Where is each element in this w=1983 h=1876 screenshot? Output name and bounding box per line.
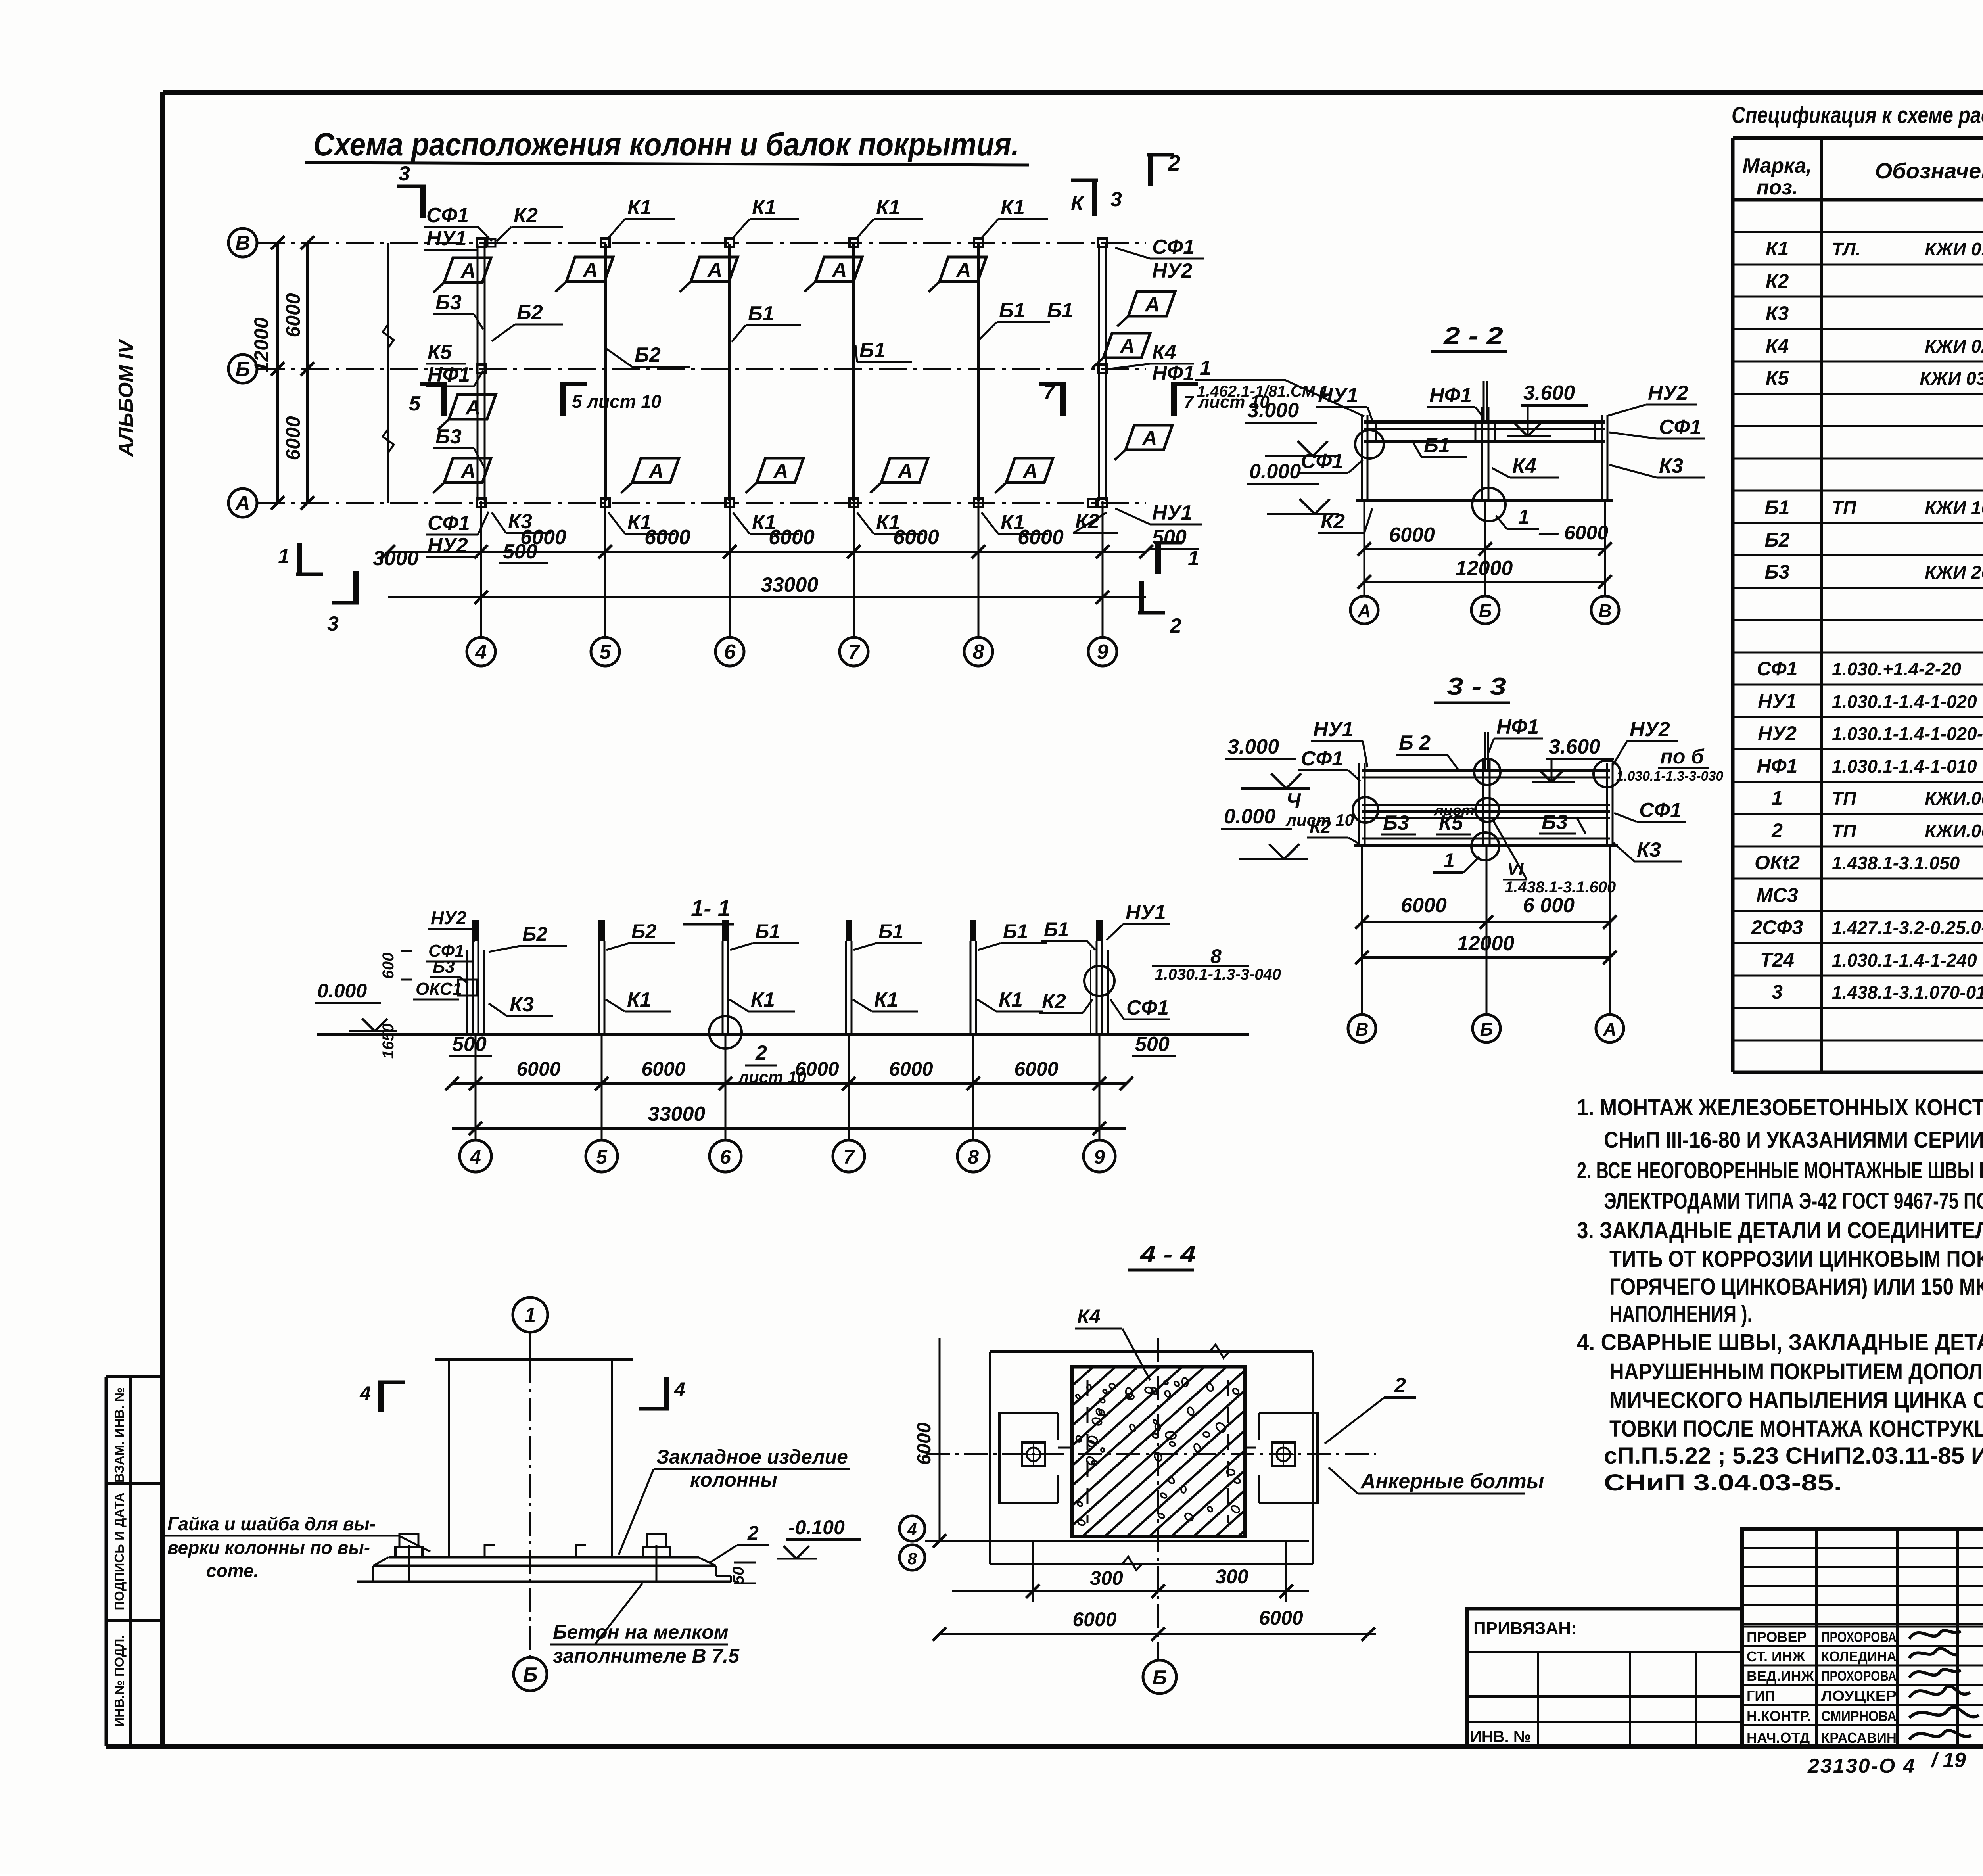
svg-text:КЖИ 02.00.00.00: КЖИ 02.00.00.00 [1925, 336, 1983, 357]
svg-text:300: 300 [1090, 1567, 1123, 1589]
svg-text:4: 4 [470, 1146, 481, 1168]
svg-text:6000: 6000 [1389, 524, 1435, 547]
svg-text:КЖИ 01.00.00.00: КЖИ 01.00.00.00 [1925, 239, 1983, 259]
svg-text:КЖИ 20.00.00.00: КЖИ 20.00.00.00 [1925, 562, 1983, 583]
svg-text:6000: 6000 [795, 1058, 839, 1080]
svg-text:К1: К1 [999, 988, 1023, 1011]
svg-text:Б: Б [236, 358, 250, 381]
svg-text:КЖИ 03.00.00.00.: КЖИ 03.00.00.00. [1920, 368, 1983, 389]
svg-text:Б1: Б1 [1047, 299, 1073, 322]
svg-text:6000: 6000 [282, 293, 304, 337]
svg-text:НУ1: НУ1 [1313, 718, 1354, 741]
svg-text:Б1: Б1 [1003, 920, 1028, 942]
svg-text:5: 5 [600, 641, 612, 664]
svg-text:Бетон на мелком: Бетон на мелком [553, 1621, 729, 1643]
svg-text:К2: К2 [1321, 510, 1345, 533]
svg-text:Б1: Б1 [999, 299, 1025, 322]
svg-text:ТЛ.: ТЛ. [1832, 239, 1860, 259]
svg-text:7: 7 [1043, 380, 1056, 403]
svg-text:К3: К3 [1766, 302, 1789, 324]
svg-text:3.000: 3.000 [1227, 735, 1279, 758]
svg-text:1: 1 [1200, 357, 1211, 380]
svg-text:НФ1: НФ1 [1429, 384, 1472, 407]
svg-text:К1: К1 [874, 988, 898, 1011]
svg-text:5: 5 [409, 392, 421, 415]
svg-text:НУ1: НУ1 [1126, 901, 1166, 924]
svg-text:Б3: Б3 [1542, 811, 1568, 834]
svg-text:6000: 6000 [893, 526, 939, 549]
svg-text:1.030.1-1.4-1-010: 1.030.1-1.4-1-010 [1832, 756, 1977, 777]
svg-text:СФ1: СФ1 [428, 512, 470, 535]
svg-text:КРАСАВИН: КРАСАВИН [1821, 1730, 1897, 1746]
svg-text:Б1: Б1 [1044, 918, 1069, 940]
svg-text:А: А [831, 259, 847, 282]
svg-text:ВЕД.ИНЖ: ВЕД.ИНЖ [1747, 1668, 1814, 1684]
svg-text:Б1: Б1 [1764, 496, 1789, 518]
svg-text:АЛЬБОМ IV: АЛЬБОМ IV [115, 338, 138, 458]
svg-text:Обозначение: Обозначение [1875, 158, 1983, 183]
svg-text:НУ2: НУ2 [428, 534, 468, 557]
svg-text:ПРИВЯЗАН:: ПРИВЯЗАН: [1473, 1619, 1577, 1638]
svg-text:Б1: Б1 [748, 302, 774, 325]
svg-text:1. МОНТАЖ ЖЕЛЕЗОБЕТОННЫХ КОНСТ: 1. МОНТАЖ ЖЕЛЕЗОБЕТОННЫХ КОНСТРУКЦИЙ ОСУ… [1577, 1095, 1983, 1120]
svg-text:верки колонны по вы-: верки колонны по вы- [167, 1537, 370, 1558]
svg-text:Б1: Б1 [1424, 434, 1450, 457]
svg-text:2: 2 [755, 1042, 767, 1065]
svg-text:ПРОВЕР: ПРОВЕР [1747, 1629, 1807, 1645]
svg-text:НУ2: НУ2 [1758, 722, 1797, 744]
svg-text:50: 50 [730, 1567, 747, 1584]
svg-text:К3: К3 [510, 993, 534, 1016]
svg-text:ТП: ТП [1832, 788, 1856, 809]
svg-text:В: В [235, 232, 250, 255]
svg-text:6000: 6000 [914, 1422, 935, 1465]
svg-text:7: 7 [848, 641, 861, 664]
svg-text:А: А [1144, 293, 1160, 316]
svg-text:НФ1: НФ1 [1757, 755, 1798, 777]
svg-text:К2: К2 [1310, 816, 1331, 837]
svg-text:Б: Б [1153, 1666, 1167, 1689]
svg-text:Т24: Т24 [1760, 949, 1794, 971]
svg-text:НАПОЛНЕНИЯ ).: НАПОЛНЕНИЯ ). [1609, 1301, 1752, 1327]
svg-text:Гайка и шайба для вы-: Гайка и шайба для вы- [167, 1513, 376, 1534]
svg-text:6000: 6000 [1014, 1058, 1058, 1080]
svg-text:1.030.1-1.3-3-030: 1.030.1-1.3-3-030 [1616, 769, 1723, 784]
svg-text:ЭЛЕКТРОДАМИ ТИПА Э-42 ГОСТ 946: ЭЛЕКТРОДАМИ ТИПА Э-42 ГОСТ 9467-75 ПО ГО… [1604, 1188, 1983, 1214]
svg-text:В: В [1355, 1019, 1368, 1040]
svg-text:А: А [897, 460, 913, 483]
svg-text:ЛОУЦКЕР: ЛОУЦКЕР [1821, 1688, 1897, 1704]
svg-text:ГОРЯЧЕГО ЦИНКОВАНИЯ) ИЛИ 150 М: ГОРЯЧЕГО ЦИНКОВАНИЯ) ИЛИ 150 МКМ (СПОСОБ… [1609, 1274, 1983, 1300]
svg-text:ПРОХОРОВА: ПРОХОРОВА [1821, 1629, 1897, 1645]
svg-text:9: 9 [1097, 641, 1108, 664]
svg-text:НУ2: НУ2 [1152, 259, 1193, 282]
svg-text:6000: 6000 [769, 526, 815, 549]
svg-text:К4: К4 [1077, 1305, 1101, 1327]
svg-text:А: А [465, 396, 481, 419]
svg-text:1: 1 [1444, 849, 1455, 871]
svg-text:1.030.1-1.4-1-020: 1.030.1-1.4-1-020 [1832, 691, 1977, 712]
svg-text:МС3: МС3 [1756, 884, 1798, 906]
svg-text:— 6000: — 6000 [1538, 522, 1608, 544]
svg-text:2: 2 [1394, 1374, 1406, 1397]
svg-text:К: К [1071, 192, 1085, 215]
svg-text:2СФ3: 2СФ3 [1751, 916, 1803, 938]
svg-text:К4: К4 [1512, 455, 1536, 478]
svg-text:1: 1 [525, 1304, 536, 1327]
svg-text:5: 5 [596, 1146, 608, 1168]
svg-text:Марка,: Марка, [1743, 154, 1812, 177]
svg-text:К1: К1 [1001, 196, 1025, 219]
svg-text:0.000: 0.000 [1249, 460, 1301, 483]
svg-text:В: В [1598, 600, 1611, 621]
svg-text:8: 8 [968, 1146, 979, 1168]
svg-text:Б2: Б2 [522, 923, 547, 945]
svg-text:6000: 6000 [1401, 894, 1447, 917]
svg-text:НУ2: НУ2 [431, 907, 466, 928]
svg-text:К3: К3 [1659, 455, 1683, 478]
svg-text:Б2: Б2 [517, 301, 543, 324]
svg-text:3: 3 [1110, 188, 1122, 211]
svg-text:2: 2 [1170, 614, 1181, 637]
svg-text:Б3: Б3 [433, 957, 455, 976]
svg-text:КЖИ.00.00.00.01: КЖИ.00.00.00.01 [1925, 788, 1983, 809]
svg-text:К1: К1 [1766, 238, 1789, 260]
svg-text:А: А [648, 460, 664, 483]
svg-text:А: А [460, 460, 476, 483]
svg-text:3.600: 3.600 [1549, 735, 1600, 758]
svg-text:НУ2: НУ2 [1648, 382, 1688, 405]
svg-text:Б1: Б1 [859, 339, 886, 362]
svg-text:А: А [1119, 335, 1135, 358]
svg-text:КЖИ.00.00.00.02: КЖИ.00.00.00.02 [1925, 821, 1983, 841]
svg-text:К1: К1 [627, 988, 651, 1011]
svg-text:1650: 1650 [380, 1024, 397, 1059]
svg-text:8: 8 [907, 1549, 917, 1568]
svg-text:К4: К4 [1152, 341, 1176, 364]
svg-text:6 000: 6 000 [1523, 894, 1575, 917]
svg-text:1: 1 [1188, 547, 1199, 570]
svg-text:3 - 3: 3 - 3 [1447, 673, 1506, 700]
svg-text:ИНВ. №: ИНВ. № [1470, 1728, 1531, 1746]
svg-text:2. ВСЕ НЕОГОВОРЕННЫЕ МОНТАЖНЫЕ: 2. ВСЕ НЕОГОВОРЕННЫЕ МОНТАЖНЫЕ ШВЫ ПРИНИ… [1577, 1158, 1983, 1184]
svg-text:СТ. ИНЖ: СТ. ИНЖ [1747, 1648, 1805, 1665]
svg-text:К5: К5 [1766, 367, 1789, 389]
svg-text:300: 300 [1215, 1565, 1248, 1588]
svg-text:Б3: Б3 [435, 425, 462, 448]
svg-text:А: А [1357, 600, 1371, 621]
svg-text:5 лист 10: 5 лист 10 [572, 391, 662, 412]
svg-text:Б1: Б1 [755, 920, 780, 942]
svg-text:К1: К1 [751, 988, 775, 1011]
svg-text:4: 4 [475, 641, 487, 664]
svg-text:А: А [582, 259, 598, 282]
svg-text:СМИРНОВА: СМИРНОВА [1821, 1708, 1897, 1724]
svg-text:Б3: Б3 [1764, 561, 1789, 583]
svg-text:К1: К1 [752, 196, 776, 219]
svg-text:1.030.1-1.4-1-240: 1.030.1-1.4-1-240 [1832, 950, 1977, 971]
svg-text:Б2: Б2 [631, 920, 656, 942]
svg-text:Анкерные болты: Анкерные болты [1360, 1470, 1544, 1493]
svg-text:-0.100: -0.100 [788, 1516, 845, 1538]
svg-text:6000: 6000 [520, 526, 566, 549]
svg-text:ОКt2: ОКt2 [1755, 852, 1800, 874]
svg-text:6000: 6000 [516, 1058, 560, 1080]
svg-text:6: 6 [720, 1146, 731, 1168]
svg-text:6000: 6000 [1018, 526, 1064, 549]
svg-text:НУ1: НУ1 [1758, 690, 1797, 712]
svg-text:1: 1 [1772, 787, 1783, 809]
svg-text:заполнителе В 7.5: заполнителе В 7.5 [553, 1645, 740, 1667]
svg-text:СФ1: СФ1 [426, 204, 469, 227]
svg-text:3.000: 3.000 [1247, 399, 1299, 422]
svg-text:К2: К2 [1766, 270, 1789, 292]
svg-text:23130-О 4: 23130-О 4 [1807, 1755, 1916, 1778]
svg-text:сП.П.5.22 ; 5.23 СНиП2.03.11-8: сП.П.5.22 ; 5.23 СНиП2.03.11-85 И ТРЕБОВ… [1604, 1443, 1983, 1469]
svg-text:1.438.1-3.1.050: 1.438.1-3.1.050 [1832, 853, 1960, 873]
svg-text:ПРОХОРОВА: ПРОХОРОВА [1821, 1668, 1897, 1684]
svg-text:Б2: Б2 [1764, 529, 1789, 551]
svg-text:1- 1: 1- 1 [691, 896, 731, 921]
svg-text:0.000: 0.000 [317, 980, 367, 1002]
svg-text:НАРУШЕННЫМ ПОКРЫТИЕМ ДОПОЛНИТЕ: НАРУШЕННЫМ ПОКРЫТИЕМ ДОПОЛНИТЕЛЬНО ЗАЩИТ… [1609, 1359, 1983, 1385]
svg-text:4. СВАРНЫЕ ШВЫ, ЗАКЛАДНЫЕ ДЕТА: 4. СВАРНЫЕ ШВЫ, ЗАКЛАДНЫЕ ДЕТАЛИ И СОЕДИ… [1577, 1329, 1983, 1355]
svg-text:НАЧ.ОТД: НАЧ.ОТД [1747, 1730, 1810, 1746]
svg-text:500: 500 [452, 1033, 487, 1056]
svg-text:ТОВКИ ПОСЛЕ МОНТАЖА КОНСТРУКЦИ: ТОВКИ ПОСЛЕ МОНТАЖА КОНСТРУКЦИЙ В СООТВЕ… [1609, 1416, 1983, 1442]
svg-text:0.000: 0.000 [1224, 805, 1275, 828]
svg-text:1.438.1-3.1.600: 1.438.1-3.1.600 [1505, 879, 1616, 896]
svg-text:Спецификация к схеме расположе: Спецификация к схеме расположения колонн… [1732, 102, 1983, 128]
svg-text:СНиП III-16-80 И УКАЗАНИЯМИ СЕ: СНиП III-16-80 И УКАЗАНИЯМИ СЕРИИ 1.423-… [1604, 1127, 1983, 1153]
svg-text:А: А [955, 259, 971, 282]
svg-text:ИНВ.№ ПОДЛ.: ИНВ.№ ПОДЛ. [112, 1635, 127, 1726]
svg-text:СФ1: СФ1 [1659, 416, 1701, 439]
svg-text:1.427.1-3.2-0.25.0-02: 1.427.1-3.2-0.25.0-02 [1832, 917, 1983, 938]
svg-text:А: А [234, 492, 250, 515]
svg-text:600: 600 [380, 953, 397, 979]
svg-text:4 - 4: 4 - 4 [1140, 1241, 1196, 1267]
svg-text:А: А [773, 460, 788, 483]
svg-text:3: 3 [327, 612, 339, 635]
svg-text:1: 1 [278, 545, 290, 568]
svg-text:/ 19: / 19 [1931, 1749, 1966, 1772]
svg-text:СФ1: СФ1 [1152, 236, 1195, 259]
svg-text:ОКС1: ОКС1 [416, 979, 462, 999]
svg-text:СФ1: СФ1 [1757, 658, 1798, 680]
svg-text:соте.: соте. [206, 1560, 259, 1581]
svg-text:3.600: 3.600 [1523, 382, 1575, 405]
svg-text:НУ1: НУ1 [426, 227, 467, 250]
svg-text:Б: Б [1479, 600, 1492, 621]
svg-text:3: 3 [399, 162, 410, 185]
svg-text:СНиП 3.04.03-85.: СНиП 3.04.03-85. [1604, 1470, 1842, 1496]
svg-text:500: 500 [1135, 1033, 1170, 1056]
svg-text:А: А [460, 259, 476, 282]
svg-text:А: А [707, 259, 723, 282]
svg-text:НУ2: НУ2 [1630, 718, 1670, 741]
svg-text:ТИТЬ ОТ КОРРОЗИИ ЦИНКОВЫМ ПОКР: ТИТЬ ОТ КОРРОЗИИ ЦИНКОВЫМ ПОКРЫТИЕМ ТОЛЩ… [1609, 1246, 1983, 1272]
svg-text:2: 2 [747, 1522, 759, 1544]
svg-text:колонны: колонны [690, 1469, 777, 1491]
svg-text:К2: К2 [514, 204, 538, 227]
svg-text:1.438.1-3.1.070-01: 1.438.1-3.1.070-01 [1832, 982, 1983, 1003]
svg-text:Б1: Б1 [878, 920, 903, 942]
svg-text:Н.КОНТР.: Н.КОНТР. [1747, 1708, 1811, 1724]
svg-text:3000: 3000 [373, 547, 419, 570]
svg-text:СФ1: СФ1 [1639, 799, 1682, 822]
svg-text:6000: 6000 [282, 416, 304, 460]
svg-text:3: 3 [1772, 981, 1783, 1003]
svg-text:33000: 33000 [761, 574, 819, 597]
svg-text:НФ1: НФ1 [1152, 362, 1195, 385]
svg-text:НУ1: НУ1 [1152, 501, 1193, 524]
svg-text:3. ЗАКЛАДНЫЕ ДЕТАЛИ И СОЕДИНИТ: 3. ЗАКЛАДНЫЕ ДЕТАЛИ И СОЕДИНИТЕЛЬНЫЕ ЭЛЕ… [1577, 1218, 1983, 1243]
svg-text:Б3: Б3 [1383, 811, 1409, 834]
svg-text:К4: К4 [1766, 335, 1789, 357]
svg-text:Б: Б [523, 1663, 538, 1686]
svg-text:6000: 6000 [889, 1058, 933, 1080]
svg-text:6000: 6000 [1259, 1607, 1303, 1629]
svg-text:4: 4 [907, 1520, 917, 1538]
svg-text:Схема расположения колонн и ба: Схема расположения колонн и балок покрыт… [313, 127, 1019, 163]
svg-text:7: 7 [843, 1146, 855, 1168]
svg-text:лист: лист [1433, 802, 1475, 819]
svg-text:4: 4 [359, 1382, 371, 1404]
svg-text:ТП: ТП [1832, 821, 1856, 841]
svg-text:МИЧЕСКОГО НАПЫЛЕНИЯ ЦИНКА С ПР: МИЧЕСКОГО НАПЫЛЕНИЯ ЦИНКА С ПРИМЕНЕНИЕМ … [1609, 1387, 1983, 1413]
svg-text:33000: 33000 [648, 1103, 706, 1126]
svg-text:6000: 6000 [644, 526, 690, 549]
svg-text:КЖИ 10.00.00.00: КЖИ 10.00.00.00 [1925, 497, 1983, 518]
svg-text:2 - 2: 2 - 2 [1443, 322, 1503, 350]
svg-text:СФ1: СФ1 [1301, 747, 1343, 770]
svg-text:2: 2 [1771, 819, 1783, 842]
svg-text:9: 9 [1094, 1146, 1105, 1168]
svg-text:КОЛЕДИНА: КОЛЕДИНА [1821, 1648, 1897, 1665]
svg-text:Б3: Б3 [435, 291, 462, 314]
svg-text:6000: 6000 [1072, 1608, 1116, 1630]
svg-text:К1: К1 [876, 196, 900, 219]
svg-text:ГИП: ГИП [1747, 1688, 1775, 1704]
svg-text:СФ1: СФ1 [1126, 996, 1169, 1019]
svg-text:К1: К1 [627, 196, 652, 219]
svg-text:1.030.1-1.4-1-020-01: 1.030.1-1.4-1-020-01 [1832, 723, 1983, 744]
svg-text:Закладное изделие: Закладное изделие [656, 1446, 848, 1468]
svg-text:А: А [1141, 427, 1157, 450]
svg-text:А: А [1603, 1019, 1616, 1040]
svg-text:А: А [1022, 460, 1038, 483]
svg-text:К5: К5 [428, 341, 452, 364]
svg-text:12000: 12000 [250, 317, 272, 372]
svg-text:1.030.1-1.3-3-040: 1.030.1-1.3-3-040 [1155, 966, 1281, 983]
svg-text:ПОДПИСЬ И ДАТА: ПОДПИСЬ И ДАТА [112, 1492, 127, 1610]
svg-text:К2: К2 [1042, 990, 1066, 1013]
svg-text:Б 2: Б 2 [1399, 731, 1431, 754]
svg-text:К3: К3 [1637, 838, 1661, 861]
svg-text:1.030.+1.4-2-20: 1.030.+1.4-2-20 [1832, 659, 1962, 679]
svg-text:1: 1 [1518, 506, 1529, 528]
svg-text:ТП: ТП [1832, 497, 1856, 518]
svg-text:12000: 12000 [1456, 557, 1513, 580]
svg-text:по б: по б [1660, 745, 1705, 768]
svg-text:ВЗАМ. ИНВ. №: ВЗАМ. ИНВ. № [112, 1387, 127, 1483]
svg-text:6: 6 [724, 641, 736, 664]
svg-text:НУ1: НУ1 [1318, 384, 1358, 407]
svg-text:4: 4 [674, 1378, 685, 1400]
svg-text:поз.: поз. [1757, 176, 1798, 199]
svg-text:Б: Б [1480, 1019, 1493, 1040]
svg-text:Ч: Ч [1286, 789, 1301, 812]
svg-text:СФ1: СФ1 [1301, 450, 1343, 473]
svg-text:8: 8 [973, 641, 984, 664]
svg-text:Б2: Б2 [635, 343, 661, 366]
svg-text:НФ1: НФ1 [1496, 715, 1539, 739]
svg-text:6000: 6000 [641, 1058, 685, 1080]
svg-text:8: 8 [1210, 945, 1222, 967]
